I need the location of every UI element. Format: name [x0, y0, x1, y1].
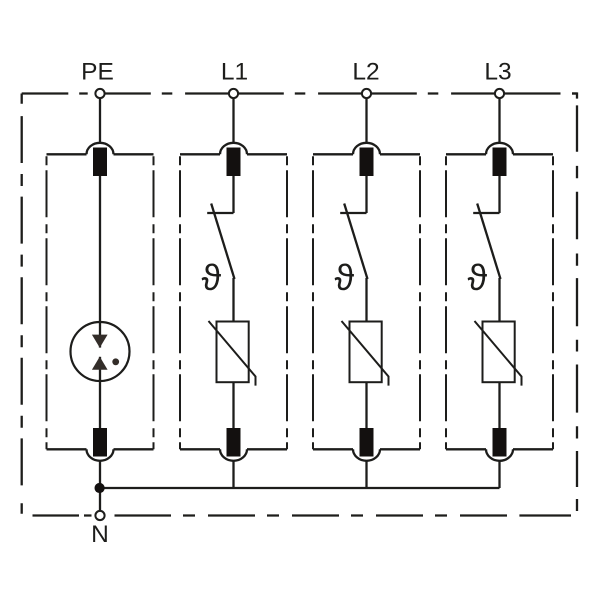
spark gap wire inside top [99, 321, 101, 348]
outer dash-dot border top edge [22, 92, 577, 94]
svg-text:PE: PE [81, 59, 114, 86]
inner dash-dot box PE path [47, 154, 154, 449]
svg-text:ϑ: ϑ [202, 257, 222, 298]
wire L3 terminal drop [498, 99, 500, 143]
wire L1 varistor to bottom terminal [232, 382, 234, 428]
terminal block top L3 [493, 148, 507, 177]
wire L1 terminal drop [232, 99, 234, 143]
varistor L1 diagonal [209, 321, 256, 386]
terminal bump arc bottom L3 [486, 449, 513, 461]
inner dash-dot box L3 path [446, 154, 553, 449]
svg-text:N: N [91, 521, 109, 548]
junction dot node N bus [95, 483, 105, 493]
terminal block top L2 [360, 148, 374, 177]
varistor L2 diagonal [342, 321, 389, 386]
terminal bump arc bottom PE [87, 449, 114, 461]
switch L2 fixed contact [340, 212, 366, 214]
terminal block top L1 [227, 148, 241, 177]
wire L1 to switch [232, 176, 234, 213]
switch L1 fixed contact [207, 212, 233, 214]
wire PE to spark gap [99, 176, 101, 348]
inner dash-dot box L1 path [180, 154, 287, 449]
inner dash-dot box L2 path [313, 154, 420, 449]
outer dash-dot border bottom edge [33, 514, 572, 516]
svg-text:ϑ: ϑ [335, 257, 355, 298]
wire L3 switch to varistor [498, 278, 500, 322]
terminal N circle [95, 511, 104, 520]
wire PE bottom to junction [99, 461, 101, 511]
terminal bump arc top L2 [353, 143, 380, 155]
N bus wire [100, 487, 500, 489]
wire L2 varistor to bottom terminal [365, 382, 367, 428]
wire L2 to switch [365, 176, 367, 213]
terminal L1 circle [229, 89, 238, 98]
switch L2 blade [344, 204, 367, 280]
wire PE spark gap to bottom terminal [99, 357, 101, 428]
spark gap wire inside bottom [99, 357, 101, 382]
terminal bump arc bottom L1 [220, 449, 247, 461]
svg-text:ϑ: ϑ [468, 257, 488, 298]
switch L1 blade [211, 204, 234, 280]
wire L1 bottom to bus [232, 461, 234, 488]
varistor L1 body [217, 322, 249, 383]
outer dash-dot border right edge [572, 94, 577, 512]
spark gap top triangle [92, 335, 108, 348]
svg-text:L2: L2 [352, 59, 379, 86]
wire L2 bottom to bus [365, 461, 367, 488]
terminal block bottom L3 [493, 428, 507, 457]
terminal block bottom L1 [227, 428, 241, 457]
terminal L2 circle [362, 89, 371, 98]
terminal block top PE [93, 148, 107, 177]
wire L3 varistor to bottom terminal [498, 382, 500, 428]
switch L3 fixed contact [473, 212, 499, 214]
terminal bump arc top L3 [486, 143, 513, 155]
switch L3 blade [477, 204, 500, 280]
wire PE terminal drop [99, 99, 101, 143]
terminal bump arc bottom L2 [353, 449, 380, 461]
terminal bump arc top PE [87, 143, 114, 155]
terminal bump arc top L1 [220, 143, 247, 155]
terminal L3 circle [495, 89, 504, 98]
svg-text:L3: L3 [484, 59, 511, 86]
wire L3 to switch [498, 176, 500, 213]
spark gap circle [71, 322, 130, 381]
varistor L2 body [350, 322, 382, 383]
terminal block bottom PE [93, 428, 107, 457]
terminal PE circle [95, 89, 104, 98]
svg-text:L1: L1 [221, 59, 248, 86]
varistor L3 body [483, 322, 515, 383]
wire L2 switch to varistor [365, 278, 367, 322]
wire L3 bottom to bus [498, 461, 500, 488]
outer dash-dot border left edge [21, 94, 23, 514]
spark gap bottom triangle [92, 357, 108, 370]
terminal block bottom L2 [360, 428, 374, 457]
spark gap indicator dot [112, 358, 119, 365]
varistor L3 diagonal [475, 321, 522, 386]
wire L2 terminal drop [365, 99, 367, 143]
wire L1 switch to varistor [232, 278, 234, 322]
